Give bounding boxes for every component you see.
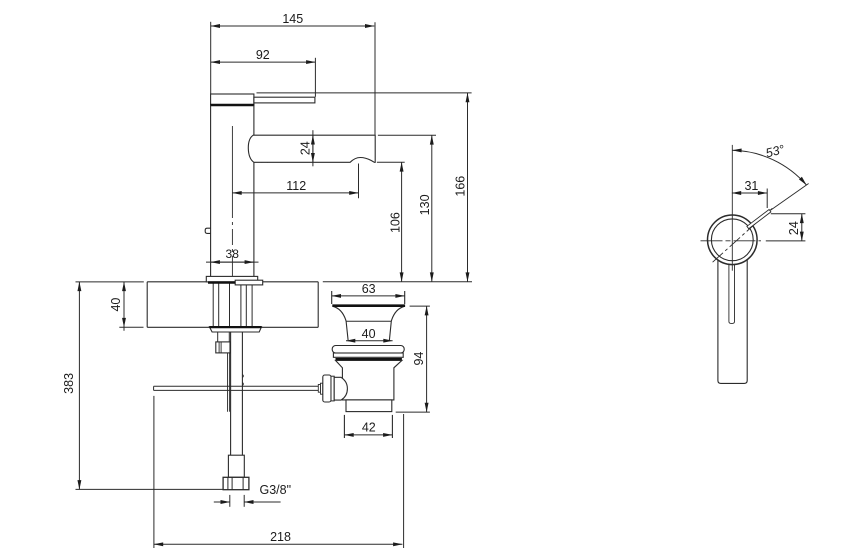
dimension 145 — [211, 22, 375, 135]
junction block — [216, 342, 230, 353]
supply tube end nut — [223, 477, 249, 489]
svg-text:38: 38 — [226, 247, 240, 261]
deck top extension left — [76, 281, 144, 283]
base flange plate A — [206, 276, 257, 282]
body clip tab — [205, 228, 210, 233]
spout — [248, 135, 375, 162]
svg-text:94: 94 — [412, 352, 426, 366]
dimension 166 — [467, 93, 469, 282]
drain shoulder — [332, 346, 404, 354]
drain flange trumpet — [332, 306, 405, 341]
tube side ticks — [242, 375, 243, 386]
drain right extension — [403, 414, 405, 548]
dimension 40 drain — [346, 340, 393, 342]
tv lever rod — [747, 210, 771, 229]
dimension 42 — [344, 415, 392, 438]
tv 53 extension — [771, 184, 809, 211]
extension line spout bottom right — [377, 161, 405, 163]
drain dark ring — [336, 358, 402, 360]
svg-text:145: 145 — [282, 12, 303, 26]
deck top extension right — [323, 281, 472, 283]
dimension 38 — [206, 261, 259, 263]
deck slab — [147, 282, 318, 328]
svg-text:130: 130 — [418, 194, 432, 215]
svg-text:42: 42 — [362, 420, 376, 434]
body centerline — [231, 126, 233, 278]
locking nut — [209, 327, 261, 332]
dimension 31 — [732, 189, 767, 209]
tv crosshair vertical — [731, 145, 733, 271]
tv spout — [718, 258, 747, 383]
mounting shank lines — [213, 282, 252, 327]
svg-text:53°: 53° — [764, 142, 786, 160]
dimension 92 — [211, 58, 316, 97]
actuator joint rings — [318, 375, 347, 402]
tv crosshair horizontal — [701, 240, 762, 242]
svg-text:92: 92 — [256, 48, 270, 62]
drain outlet tube — [346, 400, 392, 412]
faucet body — [211, 105, 254, 276]
dimension 24 top view — [766, 214, 806, 241]
supply tube lower section — [228, 455, 244, 477]
extension line spout top right — [378, 134, 436, 136]
spout bottom bead — [262, 161, 269, 162]
dimension arc 53 — [732, 150, 806, 185]
base flange plate B — [235, 280, 263, 285]
dimension 94 — [396, 306, 430, 412]
pop-up rod horizontal — [154, 386, 318, 390]
deck top line — [147, 281, 318, 283]
dimension 383 — [76, 282, 223, 490]
svg-text:63: 63 — [362, 282, 376, 296]
rod end extension — [153, 396, 155, 548]
svg-text:40: 40 — [109, 298, 123, 312]
svg-text:24: 24 — [298, 141, 312, 155]
handle lever front — [254, 97, 315, 103]
dimension 218 — [154, 543, 403, 545]
dimension 106 — [401, 162, 403, 281]
lift rod thin — [228, 353, 230, 412]
drain body — [336, 360, 402, 400]
flange dark accent — [208, 281, 235, 284]
svg-text:383: 383 — [62, 373, 76, 394]
tv body circle inner — [711, 219, 753, 261]
tv slot — [729, 262, 735, 323]
svg-text:24: 24 — [787, 221, 801, 235]
extension line faucet top — [257, 92, 472, 94]
supply tube — [231, 332, 243, 455]
drain band — [333, 353, 403, 357]
svg-text:106: 106 — [388, 212, 402, 233]
svg-text:218: 218 — [270, 530, 291, 544]
svg-text:112: 112 — [286, 179, 306, 193]
dimension 40 deck — [119, 282, 143, 331]
connector neck — [218, 332, 230, 342]
faucet cap — [210, 94, 254, 105]
dimension 112 — [232, 164, 358, 199]
tv body circle outer — [708, 215, 758, 265]
tv diagonal centerline — [713, 208, 773, 262]
dimension 130 — [431, 135, 433, 281]
svg-text:31: 31 — [744, 179, 758, 193]
svg-text:G3/8": G3/8" — [260, 483, 292, 497]
svg-text:166: 166 — [453, 176, 467, 197]
dimension G3/8 — [214, 495, 281, 507]
dimension 63 — [332, 291, 405, 304]
dimension 24 spout — [312, 130, 314, 166]
svg-text:40: 40 — [362, 327, 376, 341]
